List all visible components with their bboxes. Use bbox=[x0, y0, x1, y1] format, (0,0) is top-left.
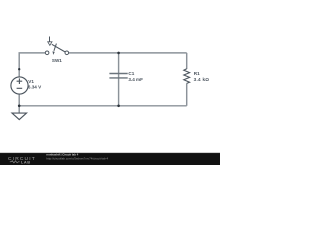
svg-text:LAB: LAB bbox=[21, 160, 31, 165]
svg-text:SW1: SW1 bbox=[52, 58, 62, 63]
svg-text:3.4 kΩ: 3.4 kΩ bbox=[194, 77, 210, 82]
svg-text:6.34 V: 6.34 V bbox=[28, 85, 42, 90]
svg-text:C1: C1 bbox=[128, 71, 134, 76]
svg-text:V1: V1 bbox=[28, 79, 34, 84]
svg-text:http://circuitlab.com/c/5edrws: http://circuitlab.com/c/5edrws7mv74/circ… bbox=[46, 157, 108, 161]
svg-text:3.4 mF: 3.4 mF bbox=[128, 77, 143, 82]
svg-text:R1: R1 bbox=[194, 71, 200, 76]
